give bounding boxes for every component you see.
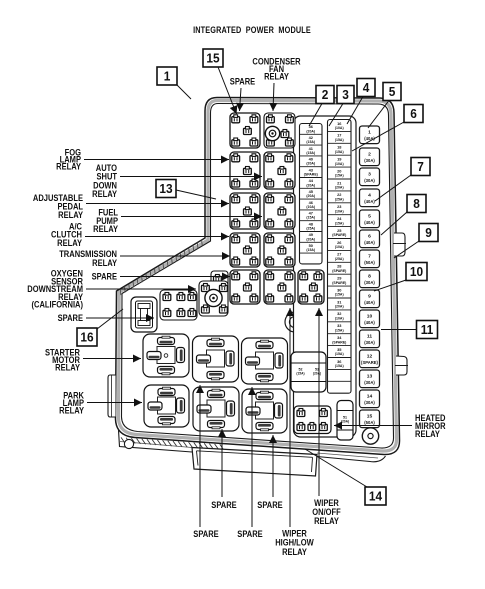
- mini fuse column 1 frame: [300, 124, 323, 264]
- wire callout 16: [97, 309, 123, 329]
- wire wiper on/off relay: [315, 308, 323, 496]
- svg-text:(SPARE): (SPARE): [332, 269, 346, 273]
- fuse 26 (10A): [328, 239, 352, 250]
- bottom band hatching: [121, 437, 224, 449]
- svg-text:(20A): (20A): [335, 186, 344, 190]
- svg-text:13: 13: [159, 182, 172, 197]
- fuse 36 (15A): [328, 358, 352, 369]
- wire transmission relay: [120, 252, 230, 260]
- svg-text:RELAY: RELAY: [415, 428, 440, 439]
- svg-text:(50A): (50A): [364, 260, 375, 265]
- fuse 23 (10A): [328, 203, 352, 214]
- bottom flange: [119, 430, 386, 462]
- svg-text:7: 7: [368, 254, 371, 260]
- svg-text:14: 14: [369, 489, 382, 504]
- fuse 5 (40A): [360, 210, 380, 228]
- svg-text:27: 27: [337, 252, 341, 257]
- fuse 41 (15A): [300, 145, 323, 155]
- svg-text:7: 7: [417, 160, 424, 175]
- transmission relay spare: [230, 270, 260, 304]
- fuse 51 (20A): [337, 401, 353, 441]
- svg-text:10: 10: [367, 314, 373, 320]
- svg-text:(20A): (20A): [306, 237, 315, 241]
- svg-text:(20A): (20A): [341, 420, 349, 424]
- svg-text:10: 10: [410, 265, 423, 280]
- svg-text:11: 11: [421, 323, 434, 338]
- svg-text:RELAY: RELAY: [59, 405, 84, 416]
- svg-text:(10A): (10A): [335, 209, 344, 213]
- svg-text:(10A): (10A): [335, 126, 344, 130]
- svg-text:(15A): (15A): [335, 221, 344, 225]
- svg-text:RELAY: RELAY: [264, 71, 289, 82]
- fuse 40 (20A): [300, 156, 323, 166]
- svg-text:15: 15: [367, 414, 373, 420]
- svg-text:(15A): (15A): [335, 138, 344, 142]
- fuse 4 (40A): [360, 189, 380, 207]
- wire callout 13: [176, 190, 216, 199]
- fuse 22 (25A): [328, 191, 352, 202]
- wire callout 14: [305, 449, 367, 487]
- adjustable pedal relay: [230, 193, 260, 229]
- wire adjustable pedal relay: [86, 200, 229, 208]
- fuse 20 (15A): [328, 167, 352, 178]
- wire callout 10: [374, 280, 406, 291]
- fuse 17 (15A): [328, 131, 352, 142]
- fuse 49 (20A): [300, 232, 323, 242]
- svg-text:(15A): (15A): [335, 352, 344, 356]
- callout 13: [156, 180, 176, 198]
- label FOG LAMP RELAY: [56, 147, 81, 172]
- svg-text:13: 13: [367, 374, 373, 380]
- svg-text:(30A): (30A): [364, 178, 375, 183]
- svg-text:SPARE: SPARE: [237, 528, 263, 539]
- screw hole bottom-left: [124, 439, 133, 448]
- label SPARE bottom2: [257, 499, 283, 510]
- svg-text:(SPARE): (SPARE): [304, 173, 318, 177]
- svg-text:RELAY: RELAY: [55, 362, 80, 373]
- svg-text:(10A): (10A): [306, 205, 315, 209]
- svg-text:9: 9: [368, 294, 371, 300]
- label FUEL PUMP RELAY: [93, 207, 118, 235]
- label SPARE bottom3: [193, 528, 219, 539]
- title INTEGRATED POWER MODULE: [193, 24, 311, 35]
- wire callout 15: [218, 67, 237, 114]
- svg-text:(SPARE): (SPARE): [332, 340, 346, 344]
- fuse 47 (15A): [300, 210, 323, 220]
- svg-text:(40A): (40A): [364, 300, 375, 305]
- wire spare bottom 3: [196, 385, 204, 527]
- svg-text:(25A): (25A): [335, 257, 344, 261]
- park lamp relay: [144, 385, 189, 427]
- fuse 7 (50A): [360, 250, 380, 268]
- fuse 42 (15A): [300, 134, 323, 144]
- left tab: [108, 375, 116, 417]
- fuse 31 (20A): [328, 298, 352, 309]
- wiper high/low relay: [264, 270, 295, 304]
- svg-text:(15A): (15A): [335, 293, 344, 297]
- callout 10: [406, 263, 427, 281]
- callout 14: [365, 487, 386, 505]
- svg-text:RELAY: RELAY: [56, 161, 81, 172]
- fuse 46 (10A): [300, 199, 323, 209]
- oxygen sensor downstream relay (california): [199, 281, 228, 316]
- svg-text:(15A): (15A): [306, 248, 315, 252]
- label TRANSMISSION RELAY: [59, 248, 117, 268]
- svg-text:(15A): (15A): [335, 328, 344, 332]
- fuse 11 (30A): [360, 330, 380, 348]
- callout 1: [157, 67, 177, 85]
- fuel pump relay: [264, 193, 295, 229]
- module housing inner wall: [122, 104, 394, 449]
- svg-text:(40A): (40A): [364, 199, 375, 204]
- svg-text:2: 2: [322, 88, 329, 103]
- svg-text:8: 8: [368, 274, 371, 280]
- right tab upper: [393, 233, 406, 256]
- svg-text:RELAY: RELAY: [57, 237, 82, 248]
- empty fuse cavity: [328, 380, 352, 382]
- fuse 43 (SPARE): [300, 167, 323, 177]
- wiper on/off relay cavity: [298, 270, 324, 304]
- label SPARE (top): [230, 76, 256, 87]
- svg-text:20: 20: [337, 168, 341, 173]
- fuse 6 (40A): [360, 230, 380, 248]
- A/C clutch relay: [230, 233, 260, 267]
- label A/C CLUTCH RELAY: [51, 221, 82, 248]
- svg-text:(10A): (10A): [335, 245, 344, 249]
- svg-text:15: 15: [206, 51, 219, 66]
- svg-text:5: 5: [389, 85, 396, 100]
- wire callout 7: [375, 175, 411, 201]
- wire callout 2: [309, 104, 322, 127]
- wire fuel pump relay: [121, 213, 262, 221]
- label SPARE bottom4: [237, 528, 263, 539]
- label STARTER MOTOR RELAY: [45, 347, 80, 373]
- svg-text:SPARE: SPARE: [230, 76, 256, 87]
- label PARK LAMP RELAY: [59, 390, 84, 416]
- svg-text:3: 3: [342, 88, 349, 103]
- svg-text:(40A): (40A): [364, 220, 375, 225]
- svg-text:SPARE: SPARE: [58, 312, 84, 323]
- svg-text:(15A): (15A): [296, 372, 304, 376]
- svg-text:SPARE: SPARE: [193, 528, 219, 539]
- fuse 24 (15A): [328, 215, 352, 226]
- callout 16: [77, 328, 97, 346]
- fuse 14 (30A): [360, 390, 380, 408]
- fuse block container: [294, 116, 357, 437]
- svg-text:SPARE: SPARE: [92, 271, 118, 282]
- fuse 35 (15A): [328, 346, 352, 357]
- svg-text:(10A): (10A): [335, 317, 344, 321]
- svg-text:(50A): (50A): [364, 420, 375, 425]
- label OXYGEN SENSOR DOWNSTREAM RELAY (CALIFORNIA): [27, 268, 83, 310]
- svg-text:SPARE: SPARE: [211, 499, 237, 510]
- big relay cavity R2C2: [193, 387, 239, 431]
- heated mirror relay group: [294, 406, 331, 434]
- svg-text:30: 30: [337, 287, 341, 292]
- label ADJUSTABLE PEDAL RELAY: [33, 192, 83, 220]
- svg-text:RELAY: RELAY: [92, 188, 117, 199]
- svg-text:6: 6: [410, 107, 417, 122]
- fuse 10 (40A): [360, 310, 380, 328]
- empty fuse cavity: [300, 252, 323, 254]
- svg-text:(15A): (15A): [335, 174, 344, 178]
- wire callout 1: [177, 85, 191, 99]
- svg-text:(15A): (15A): [335, 150, 344, 154]
- svg-text:1: 1: [368, 130, 371, 136]
- fuse 34 (SPARE): [328, 334, 352, 345]
- svg-text:(20A): (20A): [313, 372, 321, 376]
- svg-text:RELAY: RELAY: [282, 546, 307, 557]
- wire condenser fan relay: [269, 83, 277, 111]
- wire park lamp relay: [87, 399, 142, 407]
- auto shut down relay: [264, 152, 295, 189]
- svg-text:(15A): (15A): [306, 151, 315, 155]
- svg-text:(20A): (20A): [306, 129, 315, 133]
- fuse 45 (20A): [300, 188, 323, 198]
- svg-text:(30A): (30A): [364, 158, 375, 163]
- fuse 27 (25A): [328, 250, 352, 261]
- wire callout 11: [381, 329, 417, 331]
- wire starter motor relay: [83, 355, 141, 363]
- svg-text:8: 8: [413, 197, 420, 212]
- callout 8: [407, 195, 426, 213]
- big relay cavity R1C3: [242, 338, 288, 384]
- svg-text:SPARE: SPARE: [257, 499, 283, 510]
- diagonal wall hatching: [120, 240, 202, 295]
- svg-text:RELAY: RELAY: [92, 257, 117, 268]
- wire oxygen sensor relay: [86, 285, 196, 293]
- svg-text:16: 16: [80, 330, 93, 345]
- label AUTO SHUT DOWN RELAY: [92, 162, 118, 199]
- callout 6: [404, 105, 423, 123]
- svg-text:5: 5: [368, 214, 371, 220]
- label CONDENSER FAN RELAY: [252, 56, 300, 82]
- spare relay (15): [230, 113, 260, 148]
- svg-text:(40A): (40A): [364, 320, 375, 325]
- fuse 1 (40A): [360, 126, 380, 144]
- svg-text:(30A): (30A): [364, 380, 375, 385]
- wire callout 6: [352, 122, 404, 151]
- callout 9: [419, 224, 438, 242]
- svg-text:(20A): (20A): [306, 162, 315, 166]
- callout 15: [203, 49, 223, 67]
- wire callout 5: [368, 101, 389, 129]
- label WIPER ON/OFF RELAY: [312, 497, 340, 526]
- wire callout 4: [347, 97, 363, 125]
- svg-text:(30A): (30A): [364, 400, 375, 405]
- callout 3: [337, 86, 354, 104]
- wire a/c clutch relay: [85, 233, 229, 241]
- wire auto shut down relay: [120, 173, 262, 181]
- wire callout 9: [394, 241, 419, 258]
- svg-text:(25A): (25A): [306, 227, 315, 231]
- wire callout 3: [329, 104, 343, 127]
- svg-text:(15A): (15A): [306, 140, 315, 144]
- svg-text:(30A): (30A): [364, 340, 375, 345]
- bottom tray: [192, 448, 317, 477]
- wire spare top: [236, 88, 244, 111]
- fog lamp relay: [230, 152, 260, 189]
- fuse 16 (10A): [335, 121, 344, 130]
- wire callout 8: [381, 212, 407, 235]
- callout 5: [383, 83, 401, 101]
- big relay cavity R2C3: [242, 389, 287, 433]
- label SPARE bottom1: [211, 499, 237, 510]
- fuse 44 (20A): [300, 178, 323, 188]
- oxygen sensor downstream relay group: [160, 290, 197, 320]
- fuse 33 (15A): [328, 322, 352, 333]
- callout 11: [417, 321, 438, 339]
- fuse 32 (10A): [328, 310, 352, 321]
- empty fuse cavity: [328, 368, 352, 370]
- fuse 36 (20A): [306, 124, 315, 133]
- fuse 50 (15A): [300, 242, 323, 252]
- right tab lower: [395, 356, 408, 375]
- fuse 52 (15A) / fuse 53 (20A) block: [291, 352, 326, 392]
- label SPARE (transmission column): [92, 271, 118, 282]
- condenser fan relay: [264, 113, 295, 148]
- wire spare bottom 1: [218, 429, 226, 497]
- svg-text:12: 12: [367, 354, 373, 360]
- screw bottom-right: [362, 428, 378, 444]
- svg-text:2: 2: [368, 152, 371, 158]
- svg-text:4: 4: [368, 193, 371, 199]
- svg-text:4: 4: [363, 81, 370, 96]
- micro relay cavity (edge, clipped): [211, 271, 228, 305]
- svg-text:6: 6: [368, 234, 371, 240]
- svg-text:17: 17: [337, 133, 341, 138]
- fuse 13 (30A): [360, 370, 380, 388]
- svg-text:RELAY: RELAY: [58, 209, 83, 220]
- wire spare bottom 4: [248, 387, 256, 527]
- bolt middle: [285, 312, 305, 332]
- big relay cavity R1C2: [193, 336, 239, 382]
- wire heated mirror relay: [334, 422, 412, 430]
- svg-text:(40A): (40A): [364, 240, 375, 245]
- fuse 8 (30A): [360, 270, 380, 288]
- callout 2: [316, 86, 334, 104]
- svg-text:INTEGRATED POWER MODULE: INTEGRATED POWER MODULE: [193, 24, 311, 35]
- svg-text:(SPARE): (SPARE): [361, 360, 379, 365]
- wire spare bottom 2: [269, 435, 277, 497]
- module housing outer wall: [116, 98, 400, 455]
- svg-text:(15A): (15A): [335, 364, 344, 368]
- fuse 12 (SPARE): [360, 350, 380, 368]
- fuse 2 (30A): [360, 148, 380, 166]
- callout 7: [411, 158, 430, 176]
- fuse 30 (15A): [328, 286, 352, 297]
- label SPARE (16): [58, 312, 84, 323]
- mini fuse column 2 frame: [328, 120, 352, 394]
- svg-text:(SPARE): (SPARE): [332, 281, 346, 285]
- svg-text:(30A): (30A): [364, 280, 375, 285]
- micro relay cavity: [264, 233, 295, 267]
- fuse 18 (15A): [328, 143, 352, 154]
- wire fog lamp relay: [84, 156, 229, 164]
- fuse 3 (30A): [360, 168, 380, 186]
- fuse 9 (40A): [360, 290, 380, 308]
- fuse 15 (50A): [360, 410, 380, 428]
- svg-text:(25A): (25A): [335, 198, 344, 202]
- svg-text:RELAY: RELAY: [314, 515, 339, 526]
- callout 4: [357, 79, 375, 97]
- svg-text:(SPARE): (SPARE): [332, 233, 346, 237]
- svg-text:(CALIFORNIA): (CALIFORNIA): [31, 299, 83, 310]
- fuse 29 (SPARE): [328, 274, 352, 285]
- svg-text:(15A): (15A): [306, 216, 315, 220]
- svg-text:(10A): (10A): [335, 162, 344, 166]
- starter motor relay: [143, 334, 189, 377]
- wire wiper high/low relay: [286, 308, 294, 527]
- fuse 25 (SPARE): [328, 227, 352, 238]
- wire spare 16: [86, 314, 154, 322]
- svg-text:3: 3: [368, 172, 371, 178]
- spare relay cavity (16): [131, 297, 157, 332]
- svg-text:1: 1: [164, 69, 171, 84]
- svg-text:(20A): (20A): [306, 194, 315, 198]
- svg-text:RELAY: RELAY: [93, 223, 118, 234]
- label WIPER HIGH/LOW RELAY: [275, 528, 314, 557]
- fuse 19 (10A): [328, 155, 352, 166]
- svg-text:11: 11: [367, 334, 372, 340]
- label HEATED MIRROR RELAY: [415, 412, 446, 439]
- svg-text:(20A): (20A): [335, 305, 344, 309]
- fuse 21 (20A): [328, 179, 352, 190]
- fuse 28 (SPARE): [328, 262, 352, 273]
- wire spare mid: [120, 273, 230, 281]
- svg-text:14: 14: [367, 394, 373, 400]
- fuse 48 (25A): [300, 221, 323, 231]
- svg-text:(20A): (20A): [306, 183, 315, 187]
- svg-text:9: 9: [425, 226, 432, 241]
